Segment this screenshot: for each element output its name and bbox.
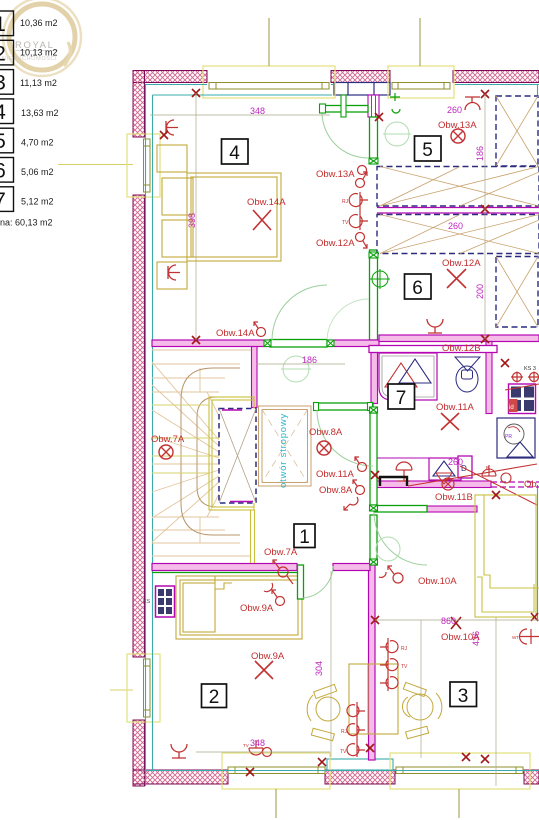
bed room2 frame [176,576,302,639]
window centerline top A [268,18,270,66]
svg-text:3: 3 [458,686,469,707]
door leaf hall green [317,403,373,410]
svg-text:Obw.14A: Obw.14A [247,197,286,208]
nightstand room4 upper [157,145,187,172]
window top B [388,66,454,98]
staircase curved stringer outer [181,368,240,535]
svg-text:5: 5 [422,140,433,161]
svg-text:Obw.9A: Obw.9A [251,651,285,662]
wall lamp room4 lower [168,265,180,280]
towel bar Obw12B magenta [369,346,497,353]
svg-text:KS: KS [143,599,151,605]
wardrobe room6 side right [496,257,538,328]
wardrobe band1 rooms5-6 [377,167,539,207]
TV outlet room2 bottom [243,740,272,757]
ceiling lamp green hall [281,356,311,382]
exterior wall hatch bottom-right segment [524,770,539,784]
svg-text:1: 1 [299,527,310,548]
door leaf W1 top green [322,106,368,113]
svg-text:11,13 m2: 11,13 m2 [20,78,57,88]
window centerline bottom E [275,789,277,818]
svg-text:348: 348 [250,106,265,116]
window bottom E [222,753,330,789]
utility washer [497,418,535,458]
wall W1 central vertical upper magenta [368,95,379,117]
svg-text:Obw.8A: Obw.8A [309,427,343,438]
svg-text:10,13 m2: 10,13 m2 [20,48,58,58]
svg-text:186: 186 [302,355,317,365]
wall W5 hall-room3 green section [370,413,377,505]
red plus markers [128,50,538,776]
X mark Obw11A room7 [441,413,459,430]
toilet room7 [455,357,480,392]
utility washbasin red [482,465,496,476]
wall W1 central vertical green sections [370,117,378,340]
wall bathroom left magenta [371,347,378,404]
wall W2 horizontal main left part [152,340,270,347]
room box 6 [405,274,432,299]
room box 4 [222,139,249,164]
room box 5 [415,136,442,161]
door threshold black bracket hall [380,477,407,486]
svg-text:Obw.11A: Obw.11A [316,469,355,480]
wall W7 green finish line [152,572,300,574]
ceiling lamp green room5 [383,122,411,146]
svg-text:Obw.13A: Obw.13A [316,169,355,180]
exterior wall hatch top-left segment [133,71,539,787]
svg-text:7: 7 [396,388,407,409]
wall bathroom bottom W4 [371,481,491,488]
door swing arc W1 top [322,112,368,158]
switch Obw13A room5 circleX [451,129,465,143]
staircase tread fan [152,350,251,556]
room box 3 [450,682,477,707]
window left D [127,654,160,722]
svg-text:RJ: RJ [342,199,349,205]
X mark Obw12A room6 [447,269,466,288]
KS electrical panel room2 [143,586,175,617]
svg-text:260: 260 [447,105,462,115]
circleX Obw8A hall [317,441,331,455]
door leaf room2 green [298,565,304,599]
svg-text:348: 348 [250,738,265,748]
svg-text:Obw.10A: Obw.10A [441,632,480,643]
door swing arc W2 into room4 [272,285,327,340]
chair room3 [402,682,441,738]
svg-text:Obw.11A: Obw.11A [436,402,475,413]
window left C [127,134,160,197]
interior finish line cyan top room5 [455,84,539,86]
washbasin counter room7 [377,457,466,459]
svg-text:Obw.8A: Obw.8A [319,485,353,496]
exterior wall hatch top-right segment [453,71,539,83]
svg-text:5,06 m2: 5,06 m2 [21,167,54,177]
svg-text:Obw.12A: Obw.12A [442,258,481,269]
legend leader wire to left window upper [58,164,133,166]
wall W5 magenta lower to bottom [369,565,376,760]
switch sockets central wall rooms5-6 [342,172,368,248]
svg-text:260: 260 [448,221,463,231]
ceiling lamp room5 top [465,97,480,110]
wall W2 horizontal between door and W1 [327,340,379,347]
room box 7 [388,384,415,409]
wall bathroom right vertical [486,342,492,414]
exterior wall hatch left lower segment [133,720,145,786]
switch Obw9A room2 [264,583,285,606]
svg-text:RJ: RJ [401,646,408,652]
X mark Obw9A room2 [255,661,273,679]
switch symbols hall right [344,457,367,510]
chair room2 [307,684,340,740]
window bottom F [390,753,530,789]
staircase balustrade yellow [209,397,255,563]
washbasin1 room7 [396,462,412,481]
room box 1 [294,524,315,548]
svg-text:4: 4 [0,101,6,124]
exterior wall hatch left upper segment [133,71,145,138]
wall W5 green lower section [370,515,377,565]
svg-text:5,12 m2: 5,12 m2 [21,197,54,207]
ceiling lamp green room3 [376,537,400,561]
svg-text:PR: PR [505,434,512,440]
svg-text:260: 260 [448,457,463,467]
interior finish line cyan second layer left [152,95,154,770]
bidet bath room7 [429,458,461,490]
ceiling lamp room6 [427,319,443,333]
staircase curved stringer inner [197,397,237,507]
wardrobe room3 yellow [475,495,539,617]
svg-text:Obw.9A: Obw.9A [240,603,274,614]
green lamp top pair room5 door [390,93,400,113]
svg-text:Obw.14A: Obw.14A [216,328,255,339]
svg-text:Obw.12B: Obw.12B [442,343,481,354]
legend leader wire to left window lower [110,689,133,691]
chimney pier face bottom [327,759,393,770]
svg-text:Obw.11B: Obw.11B [435,492,473,503]
stair electrical yellow wires [152,405,219,473]
wardrobe room5 side top-right [496,96,538,166]
nightstand room4 lower [157,262,187,289]
exterior wall hatch left middle segment [133,195,145,657]
svg-text:na: 60,13 m2: na: 60,13 m2 [0,218,53,228]
utility circle-plus fuses [511,372,539,383]
wall lamp room4 upper [166,120,178,135]
interior finish line cyan top room4 [146,85,539,787]
ceiling lamp room2 bottom [171,744,187,758]
svg-text:otwór stropowy: otwór stropowy [278,413,289,488]
window centerline bottom F [458,789,460,818]
svg-text:TV: TV [401,664,408,670]
switch Obw14A near door [254,322,266,337]
svg-text:3: 3 [0,72,6,95]
svg-text:TV: TV [342,220,349,226]
wardrobe divider magenta double bar [377,208,539,214]
door jamb green top [320,104,326,113]
legend room list [0,11,14,211]
svg-text:860: 860 [441,616,456,626]
window top A [203,66,335,98]
utility junction circle with wires [408,464,537,505]
svg-text:2: 2 [0,43,6,66]
svg-text:Obw.7A: Obw.7A [151,434,185,445]
exterior wall hatch bottom-left segment [133,770,228,784]
svg-text:10,36 m2: 10,36 m2 [20,18,58,28]
svg-text:7: 7 [0,189,6,212]
exterior wall hatch top chimney segment [331,71,390,83]
svg-text:id: id [509,405,514,411]
green X-caps wall ends [264,158,378,565]
svg-text:Obw.13A: Obw.13A [438,120,477,131]
utility electrical panel grid [505,384,539,414]
interior finish line cyan bottom [146,770,539,772]
door leaf W2 green [270,340,327,348]
room box 2 [202,684,227,708]
door jambs hall [314,403,319,411]
svg-text:2: 2 [209,687,220,708]
svg-text:4,70 m2: 4,70 m2 [21,138,54,148]
svg-text:TV: TV [243,743,249,748]
svg-text:13,63 m2: 13,63 m2 [21,108,59,118]
interior finish line cyan right edge segments [537,85,539,168]
switch Obw10A room3 top [379,566,403,583]
socket pair room2 side wall [340,702,365,757]
wall W6 corridor-room3 right of door [427,506,477,512]
wall W2 horizontal bathroom top [379,335,539,342]
svg-text:1: 1 [0,13,6,36]
svg-text:Obw.10A: Obw.10A [418,576,457,587]
svg-text:398: 398 [187,213,197,228]
svg-text:4: 4 [229,143,240,164]
desk rooms2-3 [349,664,398,734]
door swing arc hall [317,410,373,466]
wall W7 right stub [333,564,370,571]
door swing arc room3 [374,512,427,565]
svg-text:TV: TV [340,749,347,755]
X mark Obw14A room4 [253,210,271,230]
watermark logo ring [3,0,81,76]
wall stub above stairwell [252,347,258,408]
window centerline top B [419,18,421,66]
svg-text:5: 5 [0,130,6,153]
door swing arc room2 [303,566,333,598]
ceiling lamp green corridor [370,269,390,289]
exterior wall hatch bottom pier segment [325,770,395,784]
svg-text:186: 186 [475,146,485,161]
WT socket room3 right [512,629,539,644]
svg-text:Ob: Ob [524,479,537,490]
door swing arc wardrobe room4 [327,299,369,341]
bed room4 frame [157,145,281,289]
svg-text:304: 304 [314,661,324,676]
socket trio room3 wall [380,638,408,691]
door leaf room3 green [374,506,427,513]
switch Obw7A room2 door [273,560,293,584]
utility D-box [458,456,472,478]
green jamb vertical between windows [341,95,346,117]
svg-text:Obw.12A: Obw.12A [316,238,355,249]
wall bathroom bottom dashed right part [491,481,539,483]
svg-text:RJ: RJ [341,729,348,735]
chimney flue box below top wall [334,83,390,96]
svg-text:6: 6 [0,160,6,183]
svg-text:200: 200 [475,284,485,299]
circleX Obw7A stairs [159,445,173,459]
wardrobe band2 rooms5-6 [377,215,539,254]
bed room4 pillows [162,178,193,215]
stairwell void dashed navy with X [219,409,256,504]
switch Obw13A corridor [358,166,367,175]
floor opening tan rect otwor stropowy [259,406,312,486]
shower room7 [379,353,437,400]
svg-text:WT: WT [512,635,519,640]
wall W7 room1-room2 divider [152,564,297,571]
svg-text:6: 6 [412,278,423,299]
svg-text:KS 3: KS 3 [524,366,536,372]
dimension lines thin [150,93,539,786]
svg-text:Obw.7A: Obw.7A [264,547,298,558]
